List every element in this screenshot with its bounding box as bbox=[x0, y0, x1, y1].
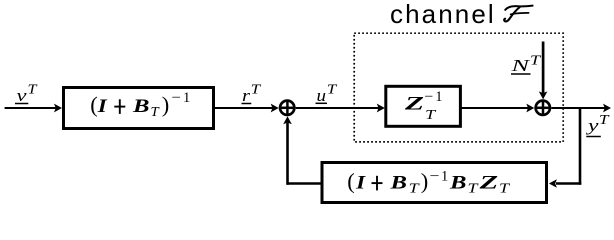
svg-text:v: v bbox=[17, 86, 28, 105]
svg-text:): ) bbox=[162, 92, 170, 117]
svg-text:B: B bbox=[449, 173, 467, 194]
svg-text:y: y bbox=[585, 116, 599, 135]
svg-text:u: u bbox=[317, 86, 327, 105]
label u^T bbox=[316, 82, 339, 106]
wire feedback to S1 bbox=[283, 116, 321, 185]
wire noise N bbox=[539, 42, 548, 100]
block Z_T^-1 bbox=[386, 86, 461, 126]
label y^T bbox=[585, 112, 610, 137]
wire u bbox=[296, 104, 385, 113]
svg-text:B: B bbox=[389, 173, 407, 194]
svg-text:B: B bbox=[132, 96, 150, 117]
summing junction S1 bbox=[280, 101, 294, 115]
svg-text:(: ( bbox=[90, 92, 98, 117]
svg-text:(: ( bbox=[347, 169, 355, 194]
svg-text:−: − bbox=[424, 89, 433, 105]
svg-text:−: − bbox=[172, 90, 181, 106]
wire r bbox=[214, 104, 279, 113]
label r^T bbox=[242, 82, 263, 106]
wire Z to S2 bbox=[461, 104, 534, 113]
script F bbox=[504, 6, 532, 22]
svg-text:I: I bbox=[355, 173, 366, 194]
wire input v bbox=[5, 104, 62, 113]
block U1 (I+B_T)^-1 bbox=[64, 88, 214, 129]
wire feedback down and left bbox=[549, 107, 581, 188]
svg-text:1: 1 bbox=[441, 168, 448, 184]
summing junction S2 bbox=[536, 101, 550, 115]
svg-text:N: N bbox=[510, 56, 532, 75]
svg-text:channel: channel bbox=[390, 0, 496, 29]
label v^T bbox=[15, 82, 38, 106]
svg-text:Z: Z bbox=[478, 173, 499, 194]
label N^T bbox=[510, 52, 542, 75]
svg-text:1: 1 bbox=[435, 89, 442, 105]
wire output y bbox=[551, 104, 611, 113]
svg-text:r: r bbox=[242, 86, 250, 105]
svg-text:1: 1 bbox=[183, 90, 190, 106]
svg-text:): ) bbox=[421, 169, 429, 194]
svg-text:−: − bbox=[430, 168, 440, 184]
svg-text:I: I bbox=[97, 96, 108, 117]
svg-text:Z: Z bbox=[403, 94, 424, 115]
label channel F bbox=[390, 0, 533, 29]
channel dotted box bbox=[354, 33, 563, 142]
block feedback (I+B_T)^-1 B_T Z_T bbox=[322, 163, 547, 203]
